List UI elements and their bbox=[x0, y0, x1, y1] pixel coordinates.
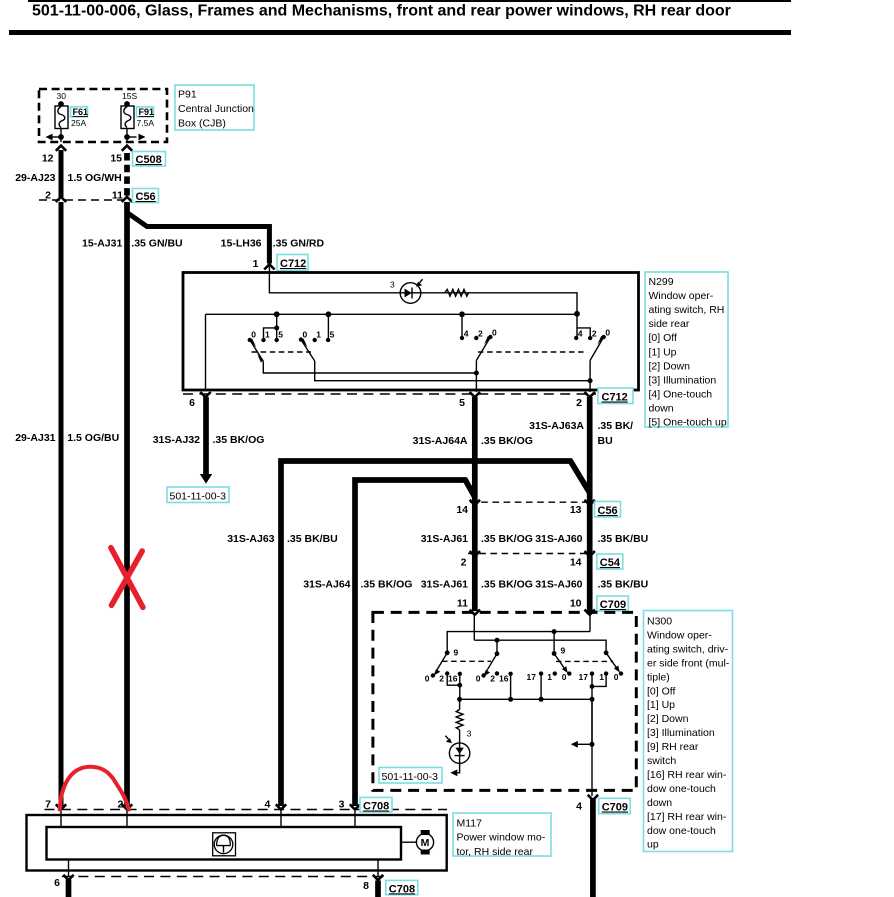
title top rule bbox=[28, 0, 791, 2]
svg-text:29-AJ23: 29-AJ23 bbox=[15, 172, 55, 184]
connector C56 line bbox=[39, 199, 125, 201]
svg-text:4: 4 bbox=[265, 799, 271, 811]
wire sw3 output junction bbox=[475, 360, 477, 392]
svg-text:[16] RH rear win-: [16] RH rear win- bbox=[647, 769, 727, 781]
svg-text:1: 1 bbox=[265, 330, 270, 340]
svg-text:17: 17 bbox=[579, 672, 589, 682]
svg-text:0: 0 bbox=[251, 330, 256, 340]
svg-text:up: up bbox=[647, 839, 659, 851]
svg-text:P91: P91 bbox=[178, 89, 197, 101]
wire C709 pin 10 into N300 bbox=[589, 614, 591, 632]
lamp arrow bbox=[420, 279, 423, 282]
circuit reference box 501-11-00-3 bbox=[167, 487, 229, 503]
wire lamp to resistor to corner bbox=[398, 293, 577, 315]
connector C56 pin 11 arrow bbox=[122, 197, 132, 202]
connector C709 pin 10 arrow bbox=[585, 610, 595, 615]
connector C712 pin 5 arrow bbox=[470, 392, 480, 397]
wire pin 8 stub bbox=[377, 860, 379, 877]
N300 sw2 contact dots bbox=[481, 673, 485, 677]
svg-text:[17] RH rear win-: [17] RH rear win- bbox=[647, 811, 727, 823]
svg-text:15-LH36: 15-LH36 bbox=[221, 238, 262, 250]
illumination lamp N299 bbox=[400, 283, 421, 304]
svg-text:M: M bbox=[421, 837, 430, 849]
svg-text:N299: N299 bbox=[649, 276, 674, 288]
mechanical link N300 sw3 sw4 bbox=[556, 660, 613, 662]
svg-text:.35 GN/BU: .35 GN/BU bbox=[131, 238, 182, 250]
connector C56 pin 13 arrow bbox=[585, 500, 595, 505]
fuse F61 name box bbox=[71, 107, 88, 117]
connector C708 pin 4 arrow bbox=[276, 804, 286, 809]
connector C56 name box bbox=[133, 189, 159, 203]
bus wire N300 bbox=[460, 698, 592, 700]
sw4 contact dots bbox=[574, 336, 578, 340]
node below F61 bbox=[58, 134, 64, 140]
switch lever N300 sw2 bbox=[486, 654, 497, 672]
svg-text:0: 0 bbox=[562, 672, 567, 682]
switch lever N300 sw1 bbox=[437, 653, 448, 671]
svg-text:4: 4 bbox=[464, 329, 469, 339]
connector C709 bottom name box bbox=[599, 798, 631, 813]
svg-text:[0] Off: [0] Off bbox=[647, 685, 675, 697]
svg-text:16: 16 bbox=[448, 674, 458, 684]
svg-text:.35 BK/OG: .35 BK/OG bbox=[481, 533, 533, 545]
svg-text:.35 BK/BU: .35 BK/BU bbox=[598, 533, 649, 545]
switch N300 dashed box outline bbox=[373, 612, 636, 790]
svg-text:ating switch, driv-: ating switch, driv- bbox=[647, 643, 729, 655]
wire pin 4 stub bbox=[280, 811, 282, 828]
P91 label box bbox=[175, 85, 254, 130]
svg-text:.35 BK/OG: .35 BK/OG bbox=[481, 435, 533, 447]
sw1 contact dots bbox=[248, 338, 252, 342]
svg-text:[2] Down: [2] Down bbox=[649, 360, 691, 372]
wire armature to motor bbox=[401, 841, 417, 843]
svg-text:[2] Down: [2] Down bbox=[647, 713, 689, 725]
connector C54 pin 2 arrow bbox=[470, 551, 480, 556]
mechanical link N300 sw1 sw2 bbox=[442, 660, 491, 662]
svg-text:31S-AJ64: 31S-AJ64 bbox=[303, 579, 350, 591]
N300 sw1 bracket contacts 2 and 16 bbox=[447, 674, 460, 700]
svg-text:C712: C712 bbox=[602, 392, 628, 404]
svg-text:31S-AJ60: 31S-AJ60 bbox=[535, 579, 582, 591]
connector C708 top name box bbox=[360, 798, 392, 813]
node upper rail sw3 bbox=[552, 629, 557, 634]
wire lower rail N300 bbox=[474, 640, 606, 653]
svg-text:tor, RH side rear: tor, RH side rear bbox=[457, 846, 534, 858]
svg-text:1: 1 bbox=[599, 672, 604, 682]
svg-text:1: 1 bbox=[253, 258, 259, 270]
svg-text:6: 6 bbox=[189, 397, 195, 409]
connector C712 name box bbox=[277, 255, 308, 271]
connector C56 mid name box bbox=[595, 502, 621, 518]
connector C508 name box bbox=[133, 152, 166, 167]
node lower rail sw2 bbox=[495, 638, 500, 643]
svg-text:13: 13 bbox=[570, 504, 582, 516]
N300 sw4 bracket contacts 17 and 1 bbox=[592, 674, 606, 745]
connector C708 bottom name box bbox=[386, 880, 418, 894]
arrow rear switch branch bbox=[578, 743, 593, 745]
wire sw2 output bbox=[315, 361, 590, 381]
wire sw1 output bbox=[263, 361, 476, 373]
svg-text:9: 9 bbox=[454, 648, 459, 658]
connector C709 pin 11 arrow bbox=[470, 610, 480, 615]
pivot dots N300 bbox=[445, 650, 450, 655]
connector C708 pin 7 arrow bbox=[56, 804, 66, 809]
central junction box P91 dashed outline bbox=[39, 89, 167, 142]
svg-text:31S-AJ63A: 31S-AJ63A bbox=[529, 420, 584, 432]
svg-text:Power window mo-: Power window mo- bbox=[457, 832, 546, 844]
svg-text:tiple): tiple) bbox=[647, 671, 670, 683]
svg-text:10: 10 bbox=[570, 597, 582, 609]
wire bus to pin 6 bbox=[205, 314, 207, 389]
svg-text:15-AJ31: 15-AJ31 bbox=[82, 238, 122, 250]
wire RH rear switch to bottom edge bbox=[590, 799, 596, 897]
wire upper rail N300 bbox=[447, 632, 590, 653]
title bottom rule bbox=[9, 30, 791, 35]
fuse F91 element bbox=[124, 107, 131, 128]
svg-text:.35 GN/RD: .35 GN/RD bbox=[273, 238, 325, 250]
svg-text:dow one-touch: dow one-touch bbox=[647, 825, 716, 837]
arrow feed left from F61 node bbox=[52, 136, 62, 138]
wire rear switch output down bbox=[591, 699, 593, 796]
svg-text:31S-AJ63: 31S-AJ63 bbox=[227, 533, 274, 545]
svg-text:C708: C708 bbox=[389, 883, 415, 895]
node fuse F61 top bbox=[58, 101, 64, 107]
wire 29-AJ23 segment bbox=[59, 150, 64, 197]
motor M117 outer box bbox=[27, 815, 447, 871]
svg-text:.35 BK/OG: .35 BK/OG bbox=[481, 579, 533, 591]
sw2 contact dots bbox=[299, 337, 303, 341]
svg-text:501-11-00-3: 501-11-00-3 bbox=[382, 771, 439, 783]
node sw3 output bbox=[474, 371, 479, 376]
switch lever sw4 bbox=[590, 337, 604, 360]
node sw1 bracket bbox=[457, 683, 462, 688]
svg-text:7.5A: 7.5A bbox=[137, 118, 155, 128]
svg-text:BU: BU bbox=[598, 435, 613, 447]
connector C508 pin 15 arrow bbox=[122, 146, 132, 151]
connector C54 name box bbox=[597, 554, 623, 569]
svg-text:[3] Illumination: [3] Illumination bbox=[647, 727, 715, 739]
svg-text:15: 15 bbox=[110, 153, 122, 165]
svg-text:.35 BK/OG: .35 BK/OG bbox=[213, 434, 265, 446]
svg-text:Window oper-: Window oper- bbox=[647, 630, 712, 642]
wire motor pin 8 to bottom edge bbox=[375, 881, 381, 897]
wire pin 3 stub bbox=[354, 811, 356, 828]
svg-text:0: 0 bbox=[492, 328, 497, 338]
wire pin 7 stub bbox=[60, 811, 62, 828]
svg-text:2: 2 bbox=[490, 674, 495, 684]
svg-text:er side front (mul-: er side front (mul- bbox=[647, 657, 730, 669]
svg-text:30: 30 bbox=[57, 91, 67, 101]
svg-text:15S: 15S bbox=[122, 91, 137, 101]
wire 31S-AJ64 diagonal join bbox=[465, 479, 475, 498]
svg-text:3: 3 bbox=[390, 280, 395, 290]
svg-text:[1] Up: [1] Up bbox=[647, 699, 675, 711]
svg-text:[1] Up: [1] Up bbox=[649, 346, 677, 358]
wire lamp to ground arrow bbox=[457, 763, 460, 773]
svg-text:5: 5 bbox=[330, 330, 335, 340]
svg-text:14: 14 bbox=[456, 504, 468, 516]
connector C56 pin 14 arrow bbox=[470, 500, 480, 505]
fuse F61 element bbox=[58, 107, 65, 128]
svg-text:2: 2 bbox=[118, 799, 124, 811]
svg-text:C712: C712 bbox=[280, 258, 306, 270]
svg-text:Window oper-: Window oper- bbox=[649, 290, 714, 302]
svg-text:[3] Illumination: [3] Illumination bbox=[649, 374, 717, 386]
svg-text:2: 2 bbox=[461, 557, 467, 569]
node rear switch arrow branch bbox=[590, 742, 595, 747]
wire branch 15-AJ31 to C712 pin 1 bbox=[127, 213, 269, 264]
window drive symbol bbox=[214, 835, 233, 854]
svg-text:12: 12 bbox=[42, 153, 54, 165]
wire C709 pin 11 into N300 bbox=[473, 614, 475, 641]
connector C708 bottom line bbox=[62, 876, 385, 878]
connector C708 pin 3 arrow bbox=[350, 804, 360, 809]
bus nodes N300 bbox=[457, 697, 462, 702]
svg-text:4: 4 bbox=[578, 329, 583, 339]
svg-text:F61: F61 bbox=[73, 107, 89, 117]
svg-text:25A: 25A bbox=[71, 118, 86, 128]
node sw1 bracket bbox=[274, 325, 279, 330]
wire sw3 pivot feed bbox=[553, 632, 555, 654]
svg-text:down: down bbox=[649, 403, 674, 415]
M117 label box bbox=[453, 813, 551, 856]
svg-text:switch: switch bbox=[647, 755, 676, 767]
N300 sw1 contact dots bbox=[431, 673, 435, 677]
switch lever N300 sw4 bbox=[606, 653, 616, 668]
wire pin1 feed inside N299 bbox=[269, 265, 398, 293]
svg-text:N300: N300 bbox=[647, 616, 672, 628]
fuse F61 body bbox=[55, 106, 68, 129]
switch lever sw1 bbox=[250, 340, 263, 361]
connector C709 pin 4 arrow bbox=[588, 795, 598, 800]
connector C708 pin 6 arrow bbox=[63, 875, 73, 880]
connector C712 pin 2 arrow bbox=[585, 392, 595, 397]
svg-text:31S-AJ64A: 31S-AJ64A bbox=[413, 435, 468, 447]
wire resistor to lamp bbox=[459, 730, 461, 743]
wire 1.5 OG/WH dashed segment bbox=[124, 153, 130, 196]
wire sw2 contact 5 bbox=[327, 314, 329, 340]
wire 31S-AJ64A from C712 pin 5 to C709 pin 11 bbox=[472, 397, 478, 611]
N300 label box bbox=[644, 611, 733, 852]
svg-text:C56: C56 bbox=[136, 191, 156, 203]
connector C54 line bbox=[468, 553, 592, 555]
svg-text:29-AJ31: 29-AJ31 bbox=[15, 432, 55, 444]
wire from C56 pin 11 down to M117 pin 2 bbox=[124, 202, 130, 806]
wire 31S-AJ32 bbox=[203, 397, 209, 474]
svg-text:501-11-00-3: 501-11-00-3 bbox=[170, 491, 227, 503]
N299 label box bbox=[645, 272, 728, 427]
svg-text:5: 5 bbox=[459, 397, 465, 409]
svg-text:31S-AJ61: 31S-AJ61 bbox=[421, 579, 468, 591]
svg-text:0: 0 bbox=[614, 672, 619, 682]
connector C708 pin 2 arrow bbox=[122, 804, 132, 809]
node sw4 output bbox=[588, 378, 593, 383]
svg-text:0: 0 bbox=[605, 328, 610, 338]
svg-text:down: down bbox=[647, 797, 672, 809]
mechanical link sw3 sw4 bbox=[478, 351, 585, 353]
connector C56 pin 2 arrow bbox=[56, 197, 66, 202]
svg-text:C56: C56 bbox=[598, 505, 618, 517]
svg-text:9: 9 bbox=[561, 646, 566, 656]
svg-text:2: 2 bbox=[439, 674, 444, 684]
wire bus to resistor bbox=[459, 699, 461, 709]
svg-text:C508: C508 bbox=[136, 154, 162, 166]
wire fuse F91 to C508 bbox=[126, 129, 128, 143]
connector C54 pin 14 arrow bbox=[585, 551, 595, 556]
connector C712 bottom name box bbox=[598, 388, 633, 404]
wire 31S-AJ63A from C712 pin 2 to C709 pin 10 bbox=[587, 397, 593, 611]
svg-text:0: 0 bbox=[476, 674, 481, 684]
fuse F91 body bbox=[121, 106, 134, 129]
svg-text:0: 0 bbox=[425, 674, 430, 684]
wire pin 6 stub bbox=[68, 860, 70, 877]
switch lever N300 sw3 bbox=[554, 654, 564, 669]
svg-text:.35 BK/OG: .35 BK/OG bbox=[361, 579, 413, 591]
svg-text:31S-AJ60: 31S-AJ60 bbox=[535, 533, 582, 545]
svg-text:F91: F91 bbox=[139, 107, 155, 117]
node sw4 bracket bbox=[590, 684, 595, 689]
wire 31S-AJ63 diagonal join bbox=[570, 460, 590, 493]
svg-text:C709: C709 bbox=[602, 802, 628, 814]
mechanical link sw1 sw2 bbox=[252, 351, 312, 353]
resistor R1 bbox=[445, 289, 469, 296]
svg-text:C54: C54 bbox=[600, 557, 621, 569]
motor M117 armature box bbox=[47, 827, 402, 860]
N300 sw3 contact 17 wire bbox=[540, 674, 542, 700]
svg-text:31S-AJ32: 31S-AJ32 bbox=[153, 434, 200, 446]
svg-text:[5] One-touch up: [5] One-touch up bbox=[649, 417, 727, 429]
svg-text:.35 BK/: .35 BK/ bbox=[598, 420, 634, 432]
svg-text:7: 7 bbox=[45, 799, 51, 811]
window drive symbol box bbox=[213, 833, 236, 856]
switch N299 box outline bbox=[183, 273, 639, 391]
svg-text:2: 2 bbox=[576, 397, 582, 409]
svg-text:C709: C709 bbox=[600, 599, 626, 611]
node bus sw3 bbox=[459, 311, 465, 317]
wire 31S-AJ63 branch horizontal and down to M117 pin 4 bbox=[281, 461, 571, 806]
arrow feed right from F91 node bbox=[127, 136, 137, 138]
illumination lamp N300 bbox=[449, 743, 469, 763]
svg-text:2: 2 bbox=[592, 329, 597, 339]
node bus sw1 bbox=[274, 311, 280, 317]
circuit reference box 501-11-00-3 in N300 bbox=[379, 768, 442, 784]
svg-text:[0] Off: [0] Off bbox=[649, 332, 677, 344]
wire sw3 contact 4 bbox=[461, 314, 463, 338]
connector C56 line bbox=[470, 501, 592, 503]
red annotation X over wire bbox=[111, 548, 143, 608]
connector C709 name box bbox=[597, 596, 629, 611]
svg-text:1.5 OG/WH: 1.5 OG/WH bbox=[68, 172, 122, 184]
arrow to circuit 501-11-00-3 bbox=[450, 769, 457, 776]
svg-text:side rear: side rear bbox=[649, 318, 690, 330]
node below F91 bbox=[124, 134, 130, 140]
svg-text:5: 5 bbox=[278, 330, 283, 340]
motor M circle bbox=[416, 834, 433, 851]
node bus sw2 bbox=[326, 311, 332, 317]
wire 29-AJ31 1.5 OG/BU left vertical bbox=[59, 202, 64, 806]
arrow 31S-AJ32 to circuit 501-11-00-3 bbox=[200, 474, 212, 484]
resistor N300 bbox=[456, 709, 463, 729]
svg-text:2: 2 bbox=[478, 329, 483, 339]
connector C508 pin 12 arrow bbox=[56, 146, 66, 151]
svg-text:C708: C708 bbox=[363, 801, 389, 813]
svg-text:6: 6 bbox=[54, 877, 60, 889]
wire 31S-AJ64 branch horizontal and down to M117 pin 3 bbox=[355, 480, 466, 806]
connector C712 pin 1 arrow bbox=[264, 264, 274, 269]
svg-text:Box (CJB): Box (CJB) bbox=[178, 118, 226, 130]
svg-text:[4] One-touch: [4] One-touch bbox=[649, 389, 713, 401]
svg-text:.35 BK/BU: .35 BK/BU bbox=[287, 533, 338, 545]
svg-text:.35 BK/BU: .35 BK/BU bbox=[598, 579, 649, 591]
svg-text:0: 0 bbox=[303, 330, 308, 340]
wire sw2 pivot feed bbox=[496, 640, 498, 654]
connector C708 top line bbox=[45, 809, 448, 811]
fuse F91 name box bbox=[137, 107, 154, 117]
sw3 contact dots bbox=[460, 336, 464, 340]
svg-text:3: 3 bbox=[467, 729, 472, 739]
switch lever sw2 bbox=[301, 340, 315, 361]
svg-text:Central Junction: Central Junction bbox=[178, 103, 254, 115]
lamp arrow N300 bbox=[445, 736, 448, 739]
wire sw4 output junction bbox=[589, 360, 591, 392]
svg-text:31S-AJ61: 31S-AJ61 bbox=[421, 533, 468, 545]
svg-text:dow one-touch: dow one-touch bbox=[647, 783, 716, 795]
N300 sw4 contact dots bbox=[590, 671, 594, 675]
switch lever sw3 bbox=[476, 337, 490, 360]
svg-text:M117: M117 bbox=[457, 818, 483, 830]
svg-text:1.5 OG/BU: 1.5 OG/BU bbox=[67, 432, 119, 444]
svg-text:501-11-00-006, Glass, Frames a: 501-11-00-006, Glass, Frames and Mechani… bbox=[32, 3, 731, 20]
svg-text:17: 17 bbox=[527, 672, 537, 682]
wire sw1 bracket contacts 1 and 5 bbox=[264, 314, 277, 340]
N300 sw2 contact 16 wire bbox=[510, 674, 512, 700]
svg-text:1: 1 bbox=[547, 672, 552, 682]
svg-text:11: 11 bbox=[457, 597, 468, 609]
svg-text:ating switch, RH: ating switch, RH bbox=[649, 304, 725, 316]
svg-text:8: 8 bbox=[363, 880, 369, 892]
node bus sw4 bbox=[574, 311, 580, 317]
svg-text:16: 16 bbox=[499, 674, 509, 684]
svg-text:4: 4 bbox=[576, 800, 582, 812]
svg-text:1: 1 bbox=[316, 330, 321, 340]
svg-text:[9] RH rear: [9] RH rear bbox=[647, 741, 699, 753]
wire fuse F61 to C508 bbox=[60, 129, 62, 143]
svg-text:14: 14 bbox=[570, 557, 582, 569]
N300 sw3 contact dots bbox=[539, 671, 543, 675]
bus wire N299 bbox=[206, 313, 578, 315]
node fuse F91 top bbox=[124, 101, 130, 107]
connector C708 pin 8 arrow bbox=[373, 875, 383, 880]
motor brushes bbox=[421, 830, 430, 835]
svg-text:3: 3 bbox=[339, 799, 345, 811]
red annotation arc over pins 7 and 2 bbox=[60, 767, 129, 810]
wire pin 2 stub bbox=[126, 811, 128, 828]
connector C712 bottom line bbox=[183, 393, 596, 395]
connector C712 pin 6 arrow bbox=[200, 392, 210, 397]
wire sw4 bracket contacts 4 and 2 bbox=[577, 314, 590, 338]
wire motor pin 6 to bottom edge bbox=[66, 880, 72, 897]
